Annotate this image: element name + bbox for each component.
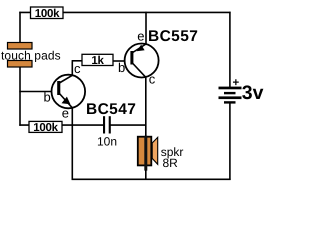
touch pad lower plate [8,61,33,68]
wire left vertical upper (rail to touch pad) [19,12,21,44]
wire Q2 emitter vertical up to top rail [145,12,147,44]
wire Q2 collector vertical down to speaker [145,77,147,137]
resistor R1 100k (top) [31,7,64,20]
wire Q1 collector vertical [71,62,73,76]
resistor R3 1k [82,54,113,67]
wire Q1 emitter vertical down to bottom rail [71,108,73,180]
capacitor C1 plate right [109,116,111,133]
svg-text:b: b [118,60,125,75]
battery BT1 plate long bottom [219,96,242,99]
transistor Q2 BC557 [125,44,159,78]
svg-text:e: e [137,29,144,44]
capacitor C1 plate left [103,116,105,133]
svg-text:10n: 10n [97,134,117,148]
wire bottom rail [72,178,231,180]
battery BT1 plate short 2 [224,101,236,103]
svg-text:8R: 8R [163,156,179,170]
transistor Q1 BC547 [52,75,86,109]
wire Q1 collector corner to 1k [72,60,82,62]
wire speaker to bottom rail [145,170,147,180]
resistor R2 100k (bottom left) [29,121,62,134]
svg-text:BC557: BC557 [148,28,198,45]
svg-text:c: c [74,61,81,76]
svg-text:3v: 3v [242,82,264,104]
wire right rail lower (battery to bottom rail) [229,103,231,180]
svg-text:BC547: BC547 [86,101,136,118]
wire emitter row horizontal left (R2 to capacitor) [19,124,104,126]
wire BC547 base branch [19,91,53,93]
touch pad upper plate [8,43,33,50]
svg-text:c: c [149,71,156,86]
svg-text:b: b [44,90,51,105]
speaker cone [152,137,158,164]
speaker coil bar [144,136,147,171]
wire left vertical lower (pad to 100k R2) [19,67,21,126]
battery BT1 plate long top [219,87,242,90]
svg-text:100k: 100k [33,122,58,134]
wire 1k to BC557 base [113,60,127,62]
wire right rail upper (rail to battery) [229,12,231,87]
wire top rail [19,11,230,13]
svg-text:+: + [233,77,240,89]
svg-text:e: e [62,105,69,120]
svg-text:1k: 1k [91,55,104,67]
wire emitter row horizontal right (capacitor to node) [110,124,146,126]
speaker body [138,137,152,166]
battery BT1 plate short 1 [224,92,236,94]
svg-text:100k: 100k [35,8,60,20]
